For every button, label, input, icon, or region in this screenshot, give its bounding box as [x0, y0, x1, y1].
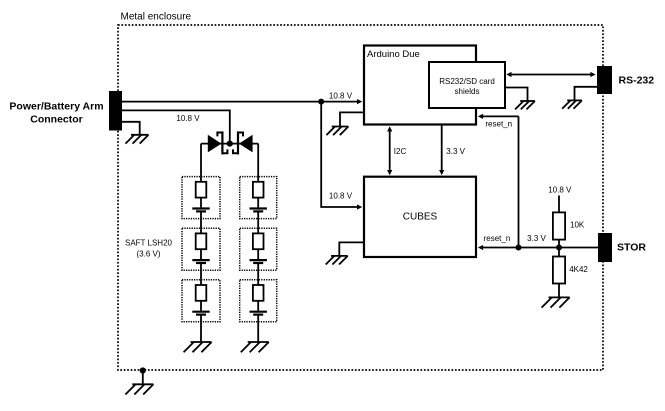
wire connector ground stub [122, 122, 140, 135]
svg-text:shields: shields [455, 87, 480, 96]
wire right string link 4 [257, 219, 259, 229]
node A junction dot [318, 99, 324, 105]
svg-text:I2C: I2C [394, 147, 407, 156]
svg-text:4K42: 4K42 [569, 265, 588, 274]
label reset_n (CUBES) [484, 234, 511, 243]
wire R1 to node [558, 240, 560, 248]
ground (divider) [542, 297, 570, 307]
label CUBES [403, 212, 438, 223]
wire 3.3V Arduino to CUBES with arrow [439, 125, 444, 176]
label STOR [617, 242, 646, 254]
svg-text:10.8 V: 10.8 V [176, 114, 200, 123]
svg-text:Power/Battery Arm: Power/Battery Arm [9, 100, 103, 112]
ground (Arduino) [326, 127, 348, 136]
svg-text:reset_n: reset_n [485, 120, 512, 129]
wire shields ground stub [505, 88, 528, 102]
battery cell B1 (left string, SAFT LSH20) [182, 177, 220, 219]
ground (RS-232) [562, 100, 582, 108]
wire divider supply to R1 [558, 196, 560, 213]
svg-text:10.8 V: 10.8 V [329, 91, 353, 100]
resistor R1 10K [553, 212, 565, 239]
svg-text:(3.6 V): (3.6 V) [136, 250, 160, 259]
svg-text:SAFT LSH20: SAFT LSH20 [125, 239, 173, 248]
battery cell B2 (left string, SAFT LSH20) [182, 228, 220, 270]
svg-text:10.8 V: 10.8 V [329, 192, 353, 201]
wire connector to diode node [122, 110, 230, 143]
wire RS-232 ground stub [575, 87, 598, 101]
label SAFT LSH20 (3.6 V) [125, 239, 173, 259]
wire diode row horizontal [201, 143, 258, 145]
label 10.8 V (divider supply) [548, 185, 572, 194]
connector J1 Power/Battery Arm [109, 91, 122, 131]
svg-text:STOR: STOR [617, 242, 646, 254]
svg-text:3.3 V: 3.3 V [527, 234, 546, 243]
label I2C [394, 147, 407, 156]
node enclosure ground junction dot [140, 367, 146, 373]
battery cell B3 (left string, SAFT LSH20) [182, 280, 220, 322]
ground (enclosure) [125, 384, 153, 394]
wire right string to ground [257, 322, 259, 342]
svg-text:Connector: Connector [30, 113, 83, 125]
node 3.3V divider junction dot [556, 245, 562, 251]
svg-text:reset_n: reset_n [484, 234, 511, 243]
ground (CUBES) [326, 256, 348, 265]
node reset_n junction dot [516, 245, 522, 251]
wire left string link 1 [200, 219, 202, 229]
svg-text:10.8 V: 10.8 V [548, 185, 572, 194]
label RS-232 [619, 75, 655, 87]
svg-text:3.3 V: 3.3 V [446, 147, 465, 156]
label Metal enclosure [121, 12, 192, 23]
wire left string to ground [200, 322, 202, 342]
label RS232/SD card shields [439, 77, 495, 96]
wire node to R2 [558, 248, 560, 257]
ground (shields) [515, 101, 535, 109]
battery cell B5 (right string, SAFT LSH20) [240, 228, 277, 270]
wire Arduino ground stub [340, 112, 364, 126]
resistor R2 4K42 [553, 257, 565, 284]
label 10.8 V (Arduino input) [329, 91, 353, 100]
wire connector to node A (10.8V bus) [122, 101, 321, 103]
wire node A to CUBES 10.8V input with arrow [321, 102, 362, 210]
label 10.8 V (battery bus) [176, 114, 200, 123]
wire right string link 5 [257, 270, 259, 280]
wire node A to Arduino 10.8V input with arrow [321, 99, 362, 104]
label 3.3 V (divider) [527, 234, 546, 243]
svg-text:CUBES: CUBES [403, 212, 438, 223]
label Arduino Due [367, 49, 420, 60]
wire right diode anode down [257, 144, 259, 177]
ground (connector) [126, 135, 149, 144]
battery cell B4 (right string, SAFT LSH20) [240, 177, 277, 219]
wire R2 to ground [558, 284, 560, 298]
ground (right battery string) [241, 342, 269, 352]
label Power/Battery Arm Connector [9, 100, 103, 125]
label 4K42 [569, 265, 588, 274]
block U1 Arduino Due [364, 46, 476, 125]
wire STOR to CUBES reset_n with arrow [478, 245, 598, 250]
svg-text:Arduino Due: Arduino Due [367, 49, 420, 60]
battery cell B6 (right string, SAFT LSH20) [240, 280, 277, 322]
diode D2 (right Schottky) [233, 131, 253, 154]
wire enclosure ground lead [142, 371, 144, 385]
wire I2C double arrow [387, 126, 392, 175]
label 3.3 V (Arduino to CUBES) [446, 147, 465, 156]
wire left diode anode down [200, 144, 202, 177]
label 10.8 V (CUBES input) [329, 192, 353, 201]
wire shields to RS-232 double arrow [506, 72, 595, 77]
svg-text:RS-232: RS-232 [619, 75, 655, 87]
svg-text:RS232/SD card: RS232/SD card [439, 77, 495, 86]
connector J2 RS-232 [597, 66, 612, 94]
block U3 CUBES [364, 177, 476, 257]
label 10K [570, 221, 585, 230]
connector J3 STOR [598, 233, 612, 262]
wire CUBES ground stub [339, 242, 364, 256]
wire reset_n to Arduino with arrow [478, 114, 519, 248]
svg-text:10K: 10K [570, 221, 585, 230]
metal enclosure dotted boundary [118, 25, 603, 370]
diode output node dot [227, 141, 233, 147]
svg-text:Metal enclosure: Metal enclosure [121, 12, 192, 23]
diode D1 (left Schottky) [208, 131, 228, 154]
block U2 RS232/SD card shields [429, 62, 505, 108]
ground (left battery string) [184, 342, 212, 352]
wire left string link 2 [200, 270, 202, 280]
label reset_n (Arduino) [485, 120, 512, 129]
